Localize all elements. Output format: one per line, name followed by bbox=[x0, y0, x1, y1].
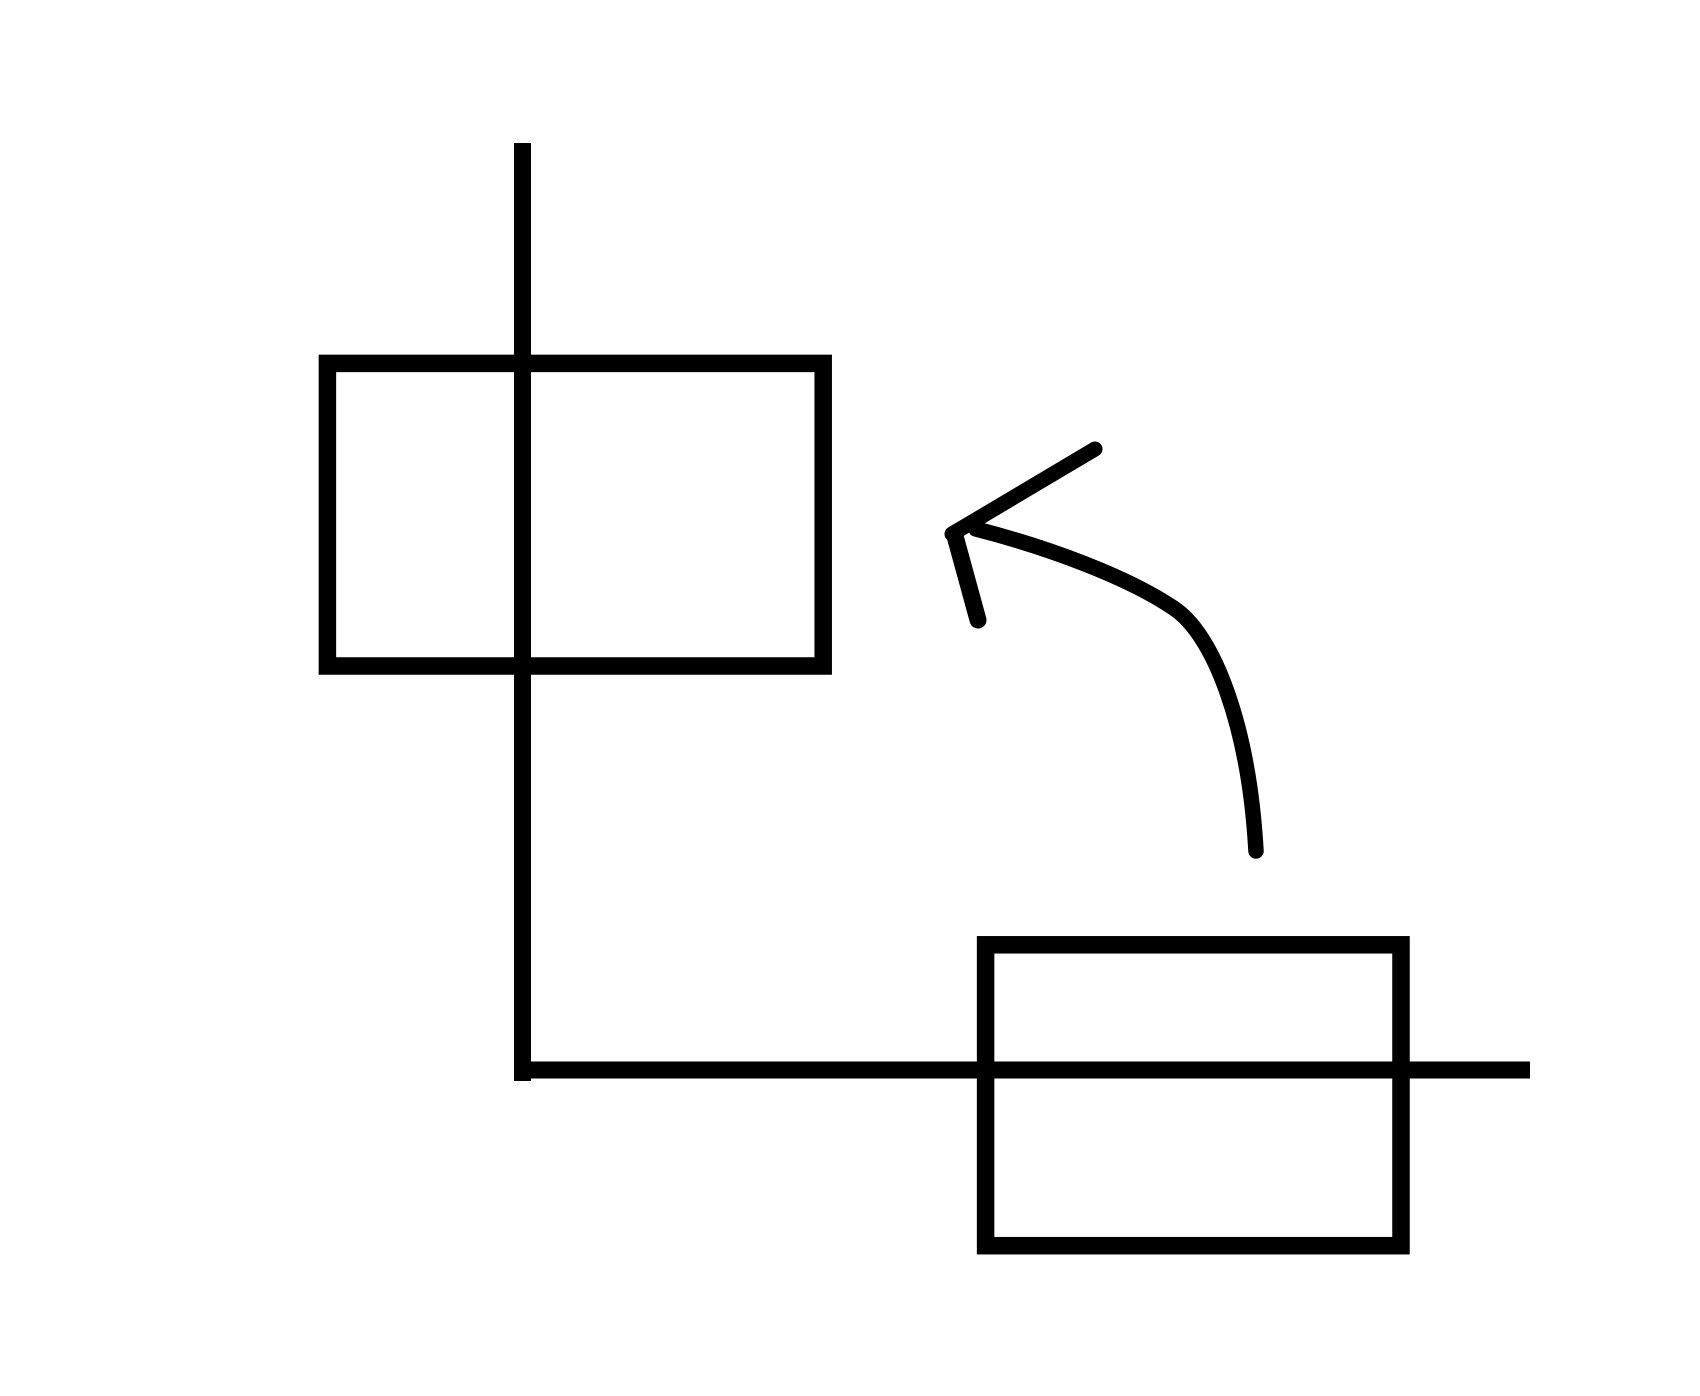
arrow annotation: upper barb bbox=[952, 449, 1095, 534]
arrow annotation: lower barb bbox=[955, 536, 978, 620]
resistor R1 bbox=[327, 363, 823, 666]
wire: horizontal segment bbox=[514, 1062, 1530, 1079]
wire: vertical segment bbox=[514, 143, 531, 1081]
arrow annotation: curved shaft bbox=[976, 529, 1256, 851]
resistor R2 bbox=[986, 945, 1401, 1246]
